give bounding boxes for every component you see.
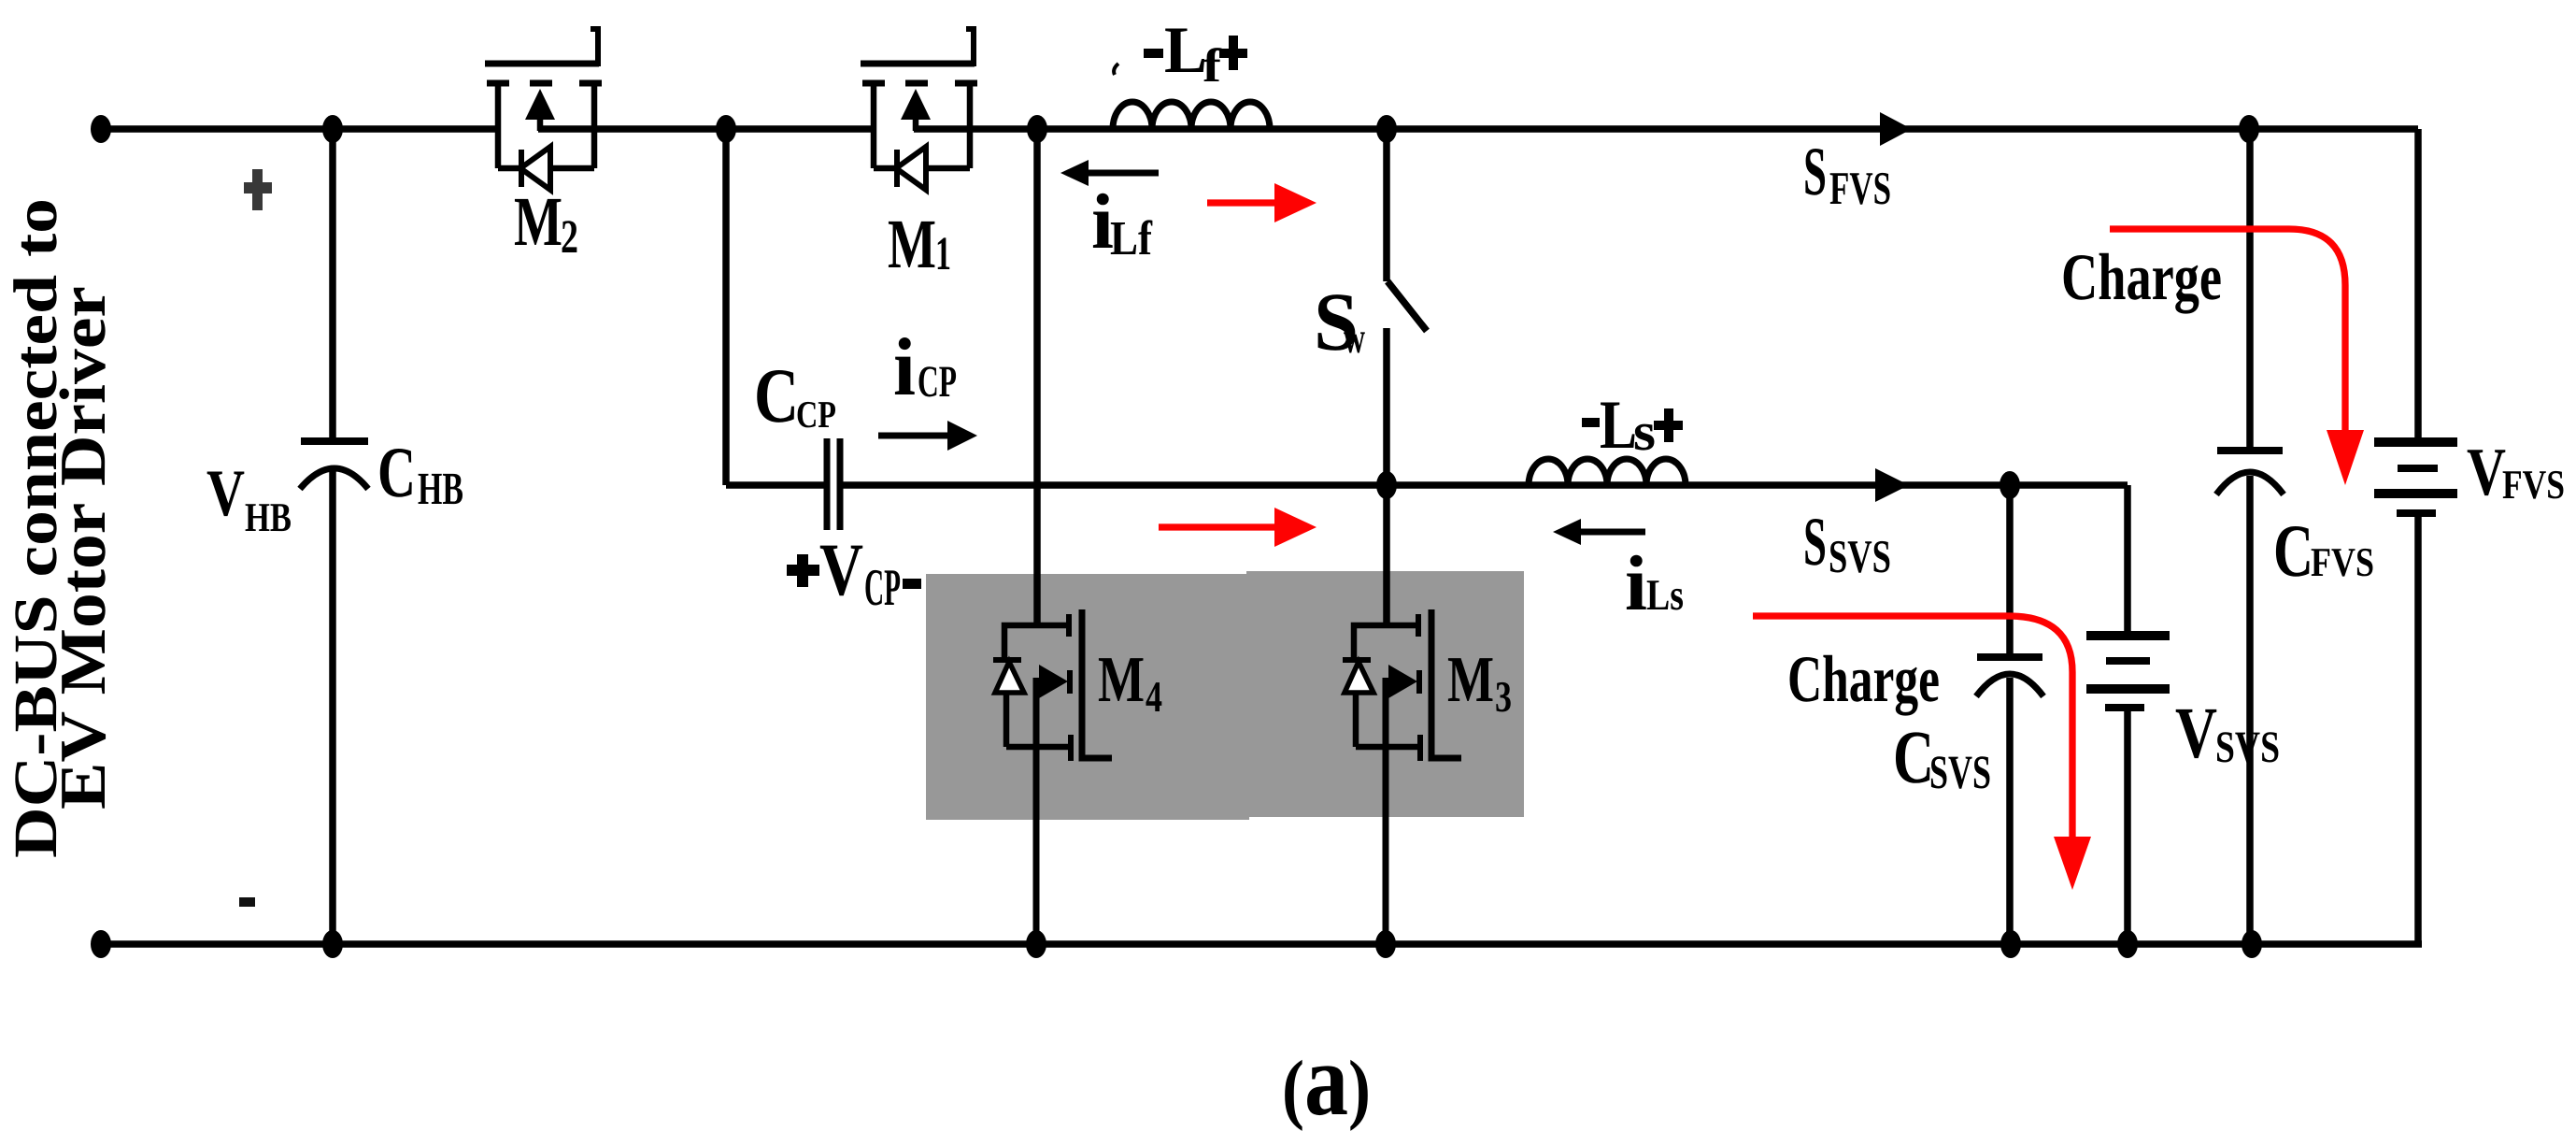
svg-text:w: w — [1344, 314, 1365, 363]
svg-text:CP: CP — [918, 357, 957, 407]
svg-text:V: V — [2467, 434, 2506, 509]
svg-text:FVS: FVS — [2311, 539, 2374, 585]
svg-text:i: i — [893, 322, 916, 413]
svg-text:FVS: FVS — [1829, 162, 1891, 214]
svg-text:HB: HB — [245, 494, 292, 540]
svg-text:EV Motor Driver: EV Motor Driver — [48, 286, 120, 809]
svg-text:1: 1 — [935, 228, 951, 280]
svg-text:CP: CP — [796, 393, 836, 436]
svg-text:i: i — [1625, 540, 1647, 627]
svg-text:L: L — [1164, 14, 1207, 87]
svg-text:2: 2 — [561, 211, 578, 264]
svg-text:(a): (a) — [1282, 1023, 1371, 1137]
svg-text:C: C — [2273, 510, 2313, 593]
svg-text:L: L — [1600, 387, 1637, 464]
svg-text:s: s — [1633, 401, 1656, 462]
svg-text:S: S — [1803, 504, 1827, 580]
svg-text:4: 4 — [1146, 673, 1162, 722]
svg-text:Charge: Charge — [1787, 643, 1940, 716]
svg-text:M: M — [1098, 644, 1145, 716]
svg-text:S: S — [1803, 134, 1827, 210]
svg-text:3: 3 — [1495, 673, 1512, 722]
svg-text:M: M — [514, 183, 562, 261]
svg-text:SVS: SVS — [1929, 747, 1991, 799]
svg-text:SVS: SVS — [2215, 723, 2280, 772]
svg-text:FVS: FVS — [2502, 462, 2565, 508]
svg-text:Charge: Charge — [2061, 241, 2222, 314]
svg-text:SVS: SVS — [1829, 530, 1891, 582]
svg-text:Lf: Lf — [1110, 212, 1153, 265]
svg-text:C: C — [754, 352, 799, 438]
svg-text:f: f — [1203, 40, 1222, 93]
svg-text:C: C — [1893, 715, 1934, 799]
svg-text:M: M — [888, 206, 936, 283]
svg-text:V: V — [819, 529, 863, 611]
svg-text:V: V — [2175, 692, 2217, 773]
svg-text:CP: CP — [864, 559, 901, 617]
svg-text:V: V — [206, 457, 245, 530]
svg-text:M: M — [1447, 644, 1494, 716]
svg-text:Ls: Ls — [1646, 571, 1684, 620]
svg-text:HB: HB — [418, 463, 463, 514]
svg-text:C: C — [377, 432, 416, 512]
